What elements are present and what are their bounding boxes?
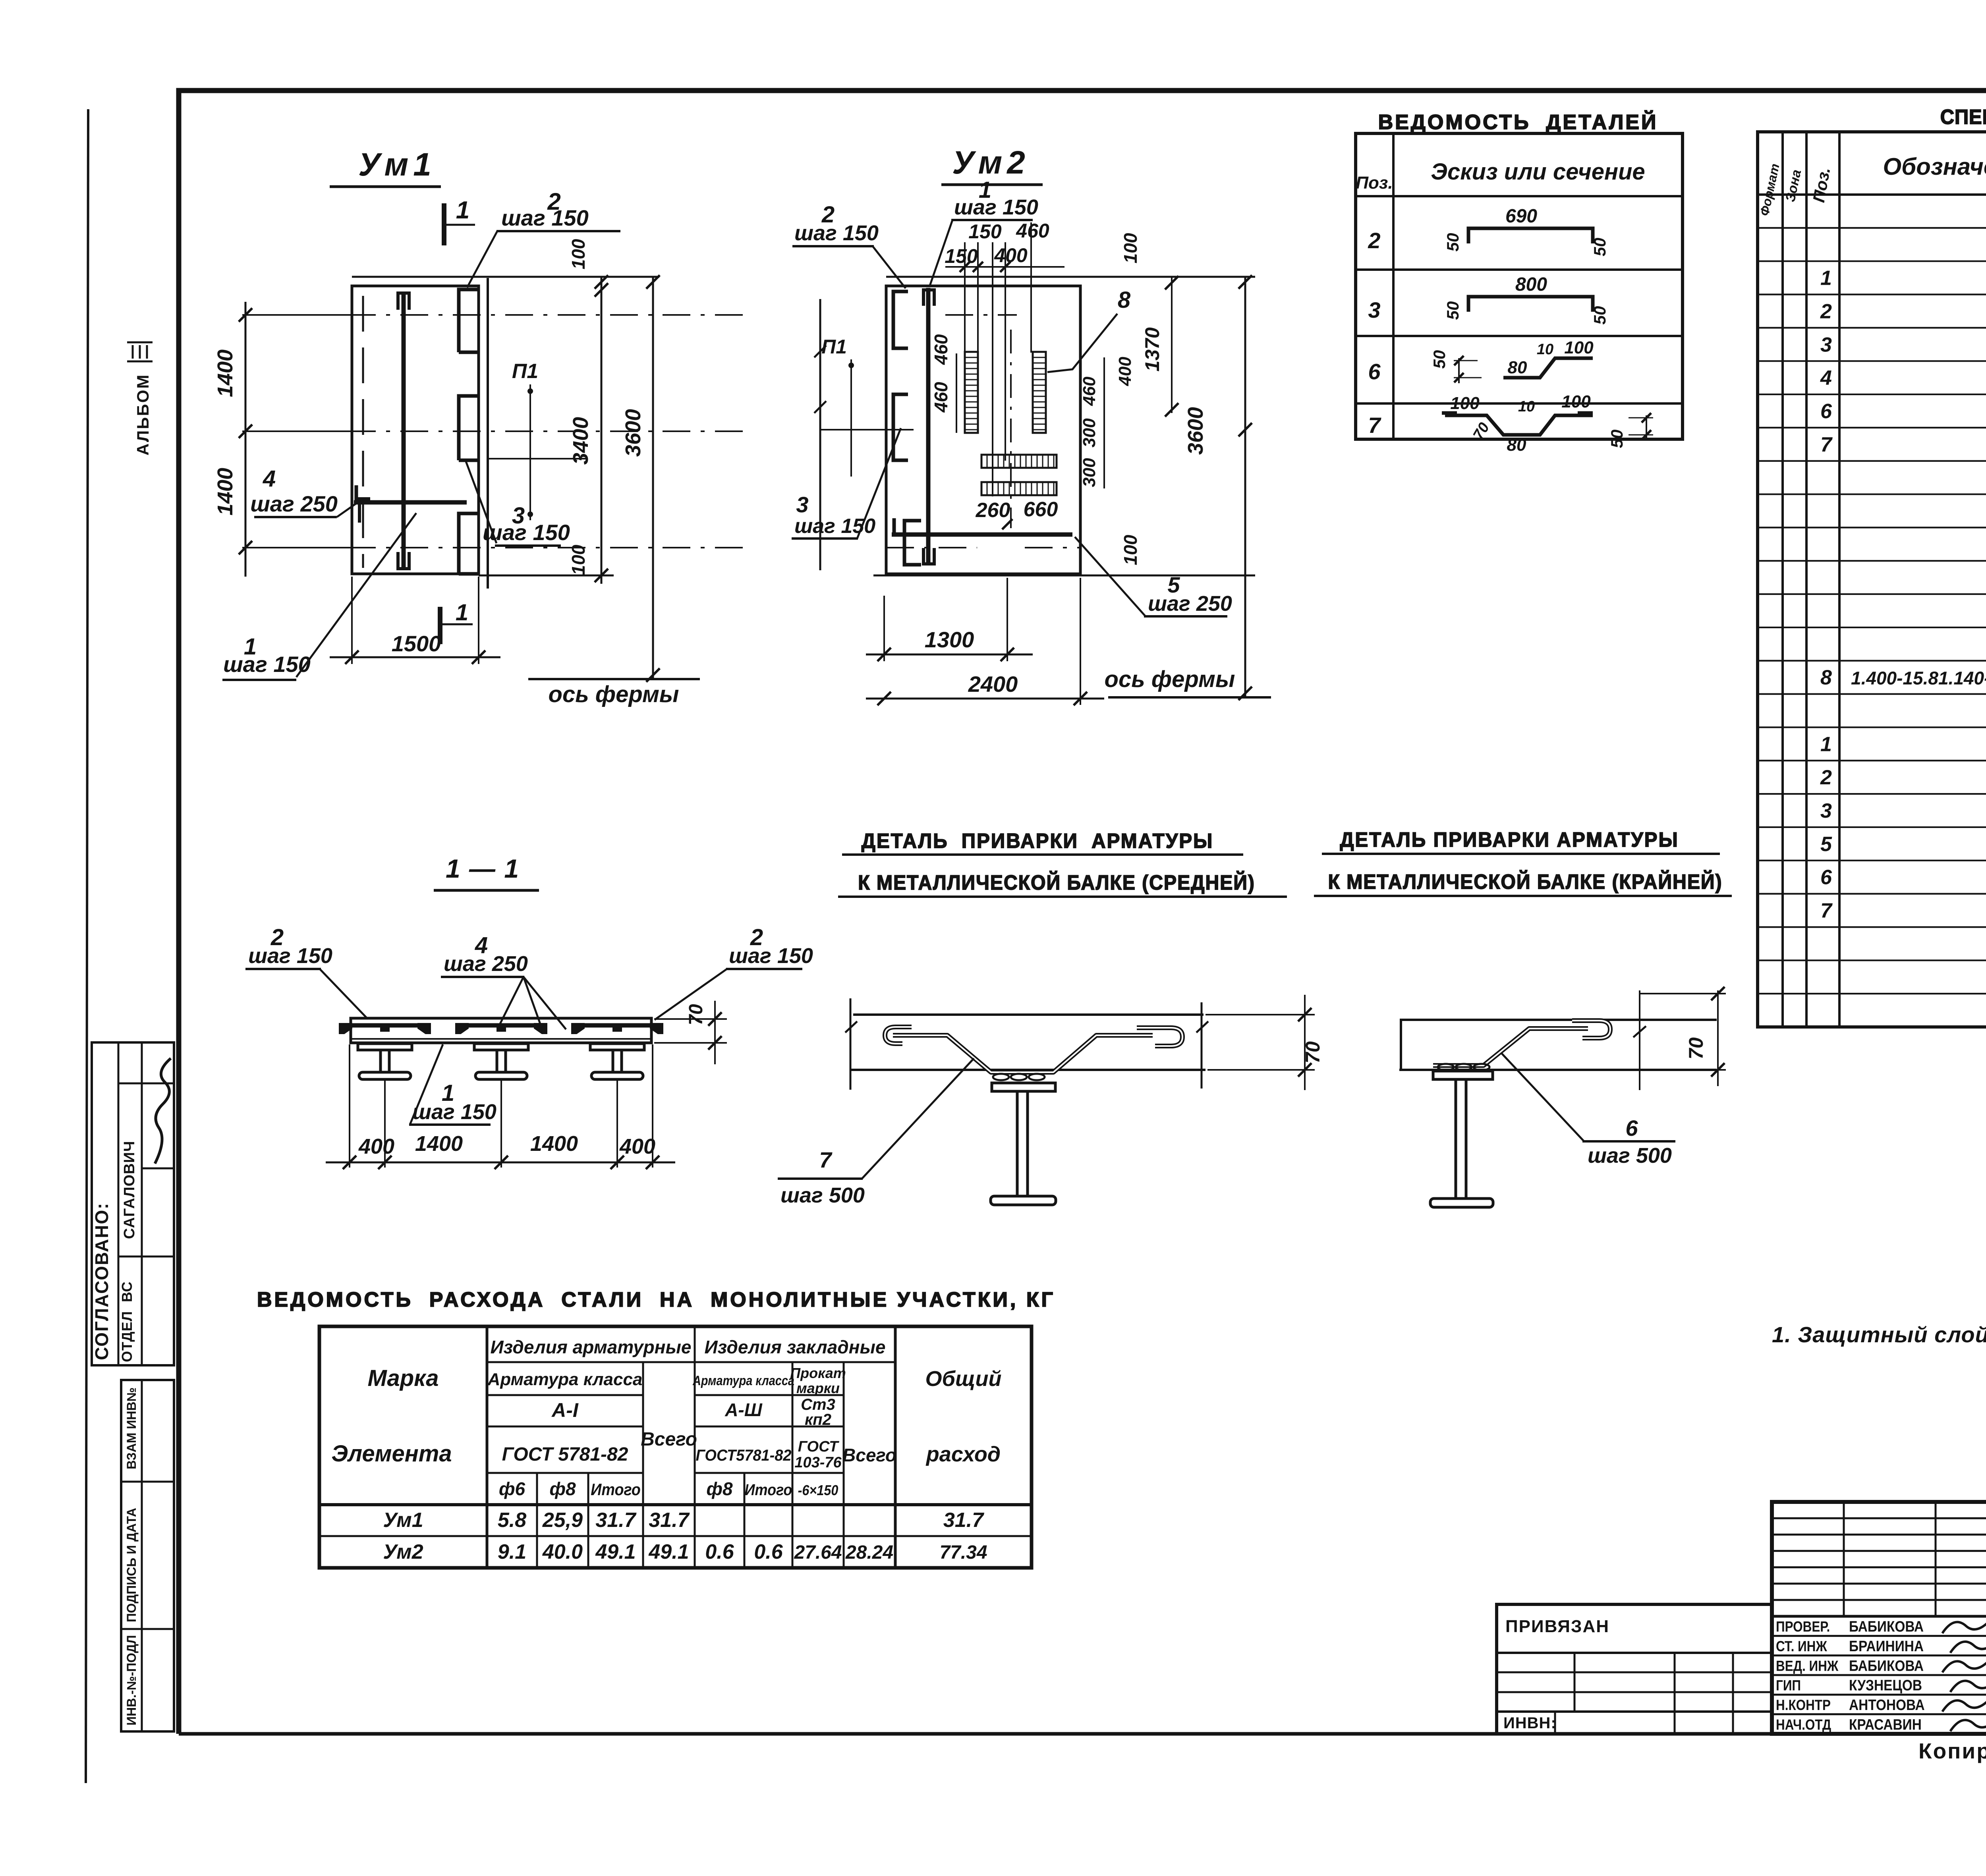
svg-text:1: 1 — [1820, 267, 1832, 290]
svg-text:Изделия закладные: Изделия закладные — [705, 1337, 886, 1357]
rebar item4 vertical bar — [402, 291, 406, 570]
svg-text:Копировал: Коршунова: Копировал: Коршунова — [1918, 1739, 1986, 1763]
svg-text:БАБИКОВА: БАБИКОВА — [1849, 1657, 1924, 1674]
dim 1500 bottom — [351, 577, 353, 664]
svg-text:50: 50 — [1443, 301, 1462, 320]
svg-text:КРАСАВИН: КРАСАВИН — [1849, 1716, 1922, 1733]
svg-text:25,9: 25,9 — [542, 1509, 583, 1532]
svg-text:Ум2: Ум2 — [952, 145, 1030, 181]
hatched anchor bar horizontal 1 — [981, 455, 1057, 468]
rebar channels in slab — [341, 1025, 429, 1033]
beam axis dash lines — [243, 314, 751, 316]
svg-text:100: 100 — [568, 239, 589, 269]
svg-text:100: 100 — [1564, 338, 1594, 357]
svg-text:5.8: 5.8 — [498, 1509, 526, 1532]
svg-text:К МЕТАЛЛИЧЕСКОЙ БАЛКЕ (СРЕДНЕЙ: К МЕТАЛЛИЧЕСКОЙ БАЛКЕ (СРЕДНЕЙ) — [858, 870, 1255, 894]
bottom extension Um2 — [873, 575, 1255, 577]
svg-text:31.7: 31.7 — [943, 1509, 984, 1532]
svg-text:шаг 150: шаг 150 — [248, 944, 332, 968]
rebar vertical bar Um2 — [926, 288, 931, 565]
svg-text:660: 660 — [1024, 498, 1058, 521]
title block upper-left grid — [1772, 1517, 1986, 1519]
svg-text:ГОСТ: ГОСТ — [798, 1438, 839, 1455]
svg-text:3: 3 — [1820, 333, 1832, 356]
svg-text:1500: 1500 — [392, 631, 441, 656]
svg-text:5: 5 — [1820, 833, 1832, 856]
svg-text:П1: П1 — [512, 360, 538, 383]
svg-text:50: 50 — [1430, 350, 1449, 369]
svg-text:690: 690 — [1505, 206, 1537, 227]
rebar bottom bar Um2 — [892, 533, 1072, 537]
svg-text:КУЗНЕЦОВ: КУЗНЕЦОВ — [1849, 1677, 1922, 1694]
svg-text:НАЧ.ОТД: НАЧ.ОТД — [1776, 1717, 1831, 1733]
svg-text:80: 80 — [1507, 435, 1526, 455]
svg-text:7: 7 — [1820, 433, 1833, 456]
row6 sketch Z-bar — [1503, 358, 1593, 378]
svg-text:2: 2 — [1820, 766, 1832, 789]
hatched anchor bar horizontal 2 — [981, 482, 1057, 495]
leader to slab corner — [467, 231, 497, 288]
axis line truss Um2 — [1108, 696, 1271, 699]
extension verticals above Um2 — [964, 242, 966, 353]
svg-text:Поз.: Поз. — [1356, 173, 1393, 193]
svg-text:1. Защитный слой бетона моноли: 1. Защитный слой бетона монолитного учас… — [1772, 1322, 1986, 1347]
svg-text:1: 1 — [1820, 733, 1832, 756]
svg-text:100: 100 — [1120, 535, 1141, 565]
steel table grid — [319, 1326, 1032, 1568]
svg-text:103-76: 103-76 — [794, 1454, 842, 1471]
svg-text:1400: 1400 — [530, 1132, 578, 1156]
svg-text:шаг 150: шаг 150 — [794, 515, 875, 538]
svg-text:Поз.: Поз. — [1809, 166, 1834, 204]
svg-text:150: 150 — [945, 245, 978, 267]
svg-text:100: 100 — [1561, 392, 1591, 411]
svg-text:Элемента: Элемента — [331, 1441, 452, 1467]
svg-text:1400: 1400 — [415, 1132, 463, 1156]
I-beam krayney — [1433, 1071, 1493, 1079]
svg-text:БРАИНИНА: БРАИНИНА — [1849, 1638, 1924, 1654]
svg-text:0.6: 0.6 — [705, 1540, 734, 1563]
svg-text:50: 50 — [1590, 238, 1609, 257]
svg-text:31.7: 31.7 — [595, 1509, 636, 1532]
svg-text:6: 6 — [1368, 359, 1381, 384]
svg-text:460: 460 — [1016, 220, 1049, 242]
table Vedomost detaley grid — [1356, 133, 1683, 439]
row2 sketch bracket 690 — [1468, 228, 1593, 243]
svg-text:шаг 150: шаг 150 — [954, 195, 1038, 219]
svg-text:шаг 500: шаг 500 — [780, 1183, 865, 1207]
svg-text:А-I: А-I — [551, 1399, 579, 1421]
svg-text:6: 6 — [1820, 400, 1832, 423]
svg-text:АНТОНОВА: АНТОНОВА — [1849, 1697, 1925, 1713]
dim 3600 Um2 — [1244, 277, 1246, 697]
svg-text:Арматура класса: Арматура класса — [692, 1373, 794, 1388]
svg-text:7: 7 — [1368, 413, 1381, 438]
svg-text:ВЕДОМОСТЬ ДЕТАЛЕЙ: ВЕДОМОСТЬ ДЕТАЛЕЙ — [1378, 110, 1658, 134]
svg-text:САГАЛОВИЧ: САГАЛОВИЧ — [121, 1141, 138, 1239]
svg-text:ОТДЕЛ ВС: ОТДЕЛ ВС — [119, 1281, 135, 1362]
svg-text:9.1: 9.1 — [498, 1540, 526, 1563]
svg-text:7: 7 — [1820, 899, 1833, 923]
svg-text:100: 100 — [1120, 233, 1141, 263]
steel table data row verticals — [536, 1505, 538, 1568]
dim 3400 line — [601, 277, 603, 584]
svg-text:шаг 500: шаг 500 — [1588, 1144, 1672, 1168]
svg-text:Прокат: Прокат — [790, 1365, 846, 1381]
svg-text:2: 2 — [1820, 300, 1832, 323]
svg-text:10: 10 — [1518, 398, 1535, 415]
svg-text:Итого: Итого — [591, 1480, 641, 1499]
svg-text:Изделия арматурные: Изделия арматурные — [491, 1337, 692, 1357]
svg-text:шаг 150: шаг 150 — [729, 944, 813, 968]
svg-text:ПОДПИСЬ И ДАТА: ПОДПИСЬ И ДАТА — [124, 1508, 139, 1622]
svg-text:3: 3 — [1820, 799, 1832, 822]
svg-text:шаг 150: шаг 150 — [794, 221, 879, 245]
inventory stamp box — [121, 1380, 174, 1731]
svg-text:Всего: Всего — [842, 1445, 896, 1465]
svg-text:50: 50 — [1607, 430, 1626, 448]
svg-text:шаг 150: шаг 150 — [223, 652, 311, 677]
row3 sketch bracket 800 — [1468, 297, 1593, 312]
svg-text:БАБИКОВА: БАБИКОВА — [1849, 1618, 1924, 1635]
svg-text:3600: 3600 — [1184, 407, 1207, 455]
approval stamp box — [92, 1042, 174, 1365]
svg-text:8: 8 — [1118, 287, 1131, 313]
svg-text:1 — 1: 1 — 1 — [446, 854, 520, 883]
svg-text:460: 460 — [1080, 376, 1099, 406]
dim 460 460 left chain — [956, 353, 957, 433]
svg-text:49.1: 49.1 — [595, 1540, 636, 1563]
svg-text:ДЕТАЛЬ ПРИВАРКИ АРМАТУРЫ: ДЕТАЛЬ ПРИВАРКИ АРМАТУРЫ — [1340, 828, 1679, 851]
svg-text:ф6: ф6 — [499, 1478, 525, 1499]
svg-text:-6×150: -6×150 — [798, 1482, 838, 1498]
svg-text:300: 300 — [1080, 458, 1099, 487]
weld ovals sredney — [993, 1074, 1009, 1080]
svg-text:100: 100 — [1450, 394, 1480, 413]
svg-text:4: 4 — [263, 466, 276, 492]
svg-text:шаг 250: шаг 250 — [250, 491, 338, 516]
svg-text:31.7: 31.7 — [649, 1509, 690, 1532]
svg-text:К МЕТАЛЛИЧЕСКОЙ БАЛКЕ (КРАЙНЕЙ: К МЕТАЛЛИЧЕСКОЙ БАЛКЕ (КРАЙНЕЙ) — [1328, 870, 1722, 893]
bracket top-left Um2 — [893, 291, 908, 348]
svg-text:марки: марки — [796, 1380, 840, 1396]
svg-text:1: 1 — [456, 197, 469, 224]
svg-text:40.0: 40.0 — [542, 1540, 583, 1563]
slab outline Um2 — [886, 286, 1080, 574]
svg-text:ГИП: ГИП — [1776, 1677, 1801, 1694]
svg-text:П1: П1 — [821, 336, 847, 358]
frame bottom line — [179, 1732, 1986, 1736]
drawing frame border — [179, 91, 1986, 1734]
slab edges krayney — [1401, 1020, 1717, 1070]
svg-text:800: 800 — [1515, 274, 1547, 295]
svg-text:1: 1 — [456, 600, 468, 625]
svg-text:Общий: Общий — [925, 1367, 1002, 1391]
svg-text:50: 50 — [1443, 233, 1462, 252]
sheet scan edge line left — [86, 109, 88, 1783]
svg-text:10: 10 — [1537, 341, 1553, 358]
svg-text:Арматура класса: Арматура класса — [487, 1370, 643, 1389]
svg-text:460: 460 — [931, 334, 951, 365]
svg-text:300: 300 — [1080, 418, 1099, 448]
svg-text:3400: 3400 — [569, 417, 593, 465]
svg-text:49.1: 49.1 — [648, 1540, 689, 1563]
dim 1300 — [883, 596, 885, 661]
svg-text:3: 3 — [796, 492, 808, 517]
svg-text:100: 100 — [568, 544, 589, 575]
bent rebar item6 — [1433, 1021, 1610, 1065]
svg-text:кп2: кп2 — [805, 1411, 831, 1428]
svg-text:6: 6 — [1820, 866, 1832, 889]
svg-text:28.24: 28.24 — [845, 1542, 893, 1563]
svg-text:ось фермы: ось фермы — [1105, 666, 1235, 692]
bottom dim chain 400 1400 1400 400 — [349, 1044, 350, 1168]
svg-text:ВЕДОМОСТЬ РАСХОДА СТАЛИ НА: ВЕДОМОСТЬ РАСХОДА СТАЛИ НА МОНОЛИТНЫЕ УЧ… — [257, 1288, 1055, 1311]
svg-text:Ум1: Ум1 — [358, 147, 436, 183]
svg-text:8: 8 — [1820, 666, 1832, 689]
dim 70 sredney — [1206, 1014, 1315, 1015]
svg-text:2400: 2400 — [968, 672, 1018, 697]
spec table grid — [1758, 132, 1986, 1027]
svg-text:Ум2: Ум2 — [383, 1540, 423, 1563]
svg-text:0.6: 0.6 — [754, 1540, 783, 1563]
svg-text:1400: 1400 — [213, 468, 237, 515]
svg-text:АЛЬБОМ: АЛЬБОМ — [133, 374, 152, 455]
svg-text:СПЕЦИФИКАЦИЯ МОНОЛИТНЫХ УЧАС: СПЕЦИФИКАЦИЯ МОНОЛИТНЫХ УЧАСТКОВ УМ1, УМ… — [1940, 105, 1986, 129]
svg-text:Формат: Формат — [1757, 162, 1782, 217]
channel bracket top right — [459, 290, 479, 352]
svg-text:460: 460 — [931, 382, 951, 413]
svg-text:СОГЛАСОВАНО:: СОГЛАСОВАНО: — [91, 1202, 112, 1360]
svg-text:80: 80 — [1508, 358, 1527, 377]
small bracket bottom left — [359, 499, 370, 523]
svg-text:Итого: Итого — [745, 1481, 792, 1499]
svg-text:ось фермы: ось фермы — [549, 681, 679, 707]
svg-text:70: 70 — [1302, 1041, 1324, 1063]
svg-text:расход: расход — [925, 1442, 1001, 1466]
svg-text:ВЕД. ИНЖ: ВЕД. ИНЖ — [1776, 1658, 1839, 1674]
svg-text:Эскиз или сечение: Эскиз или сечение — [1431, 159, 1645, 185]
slab section bar — [351, 1018, 651, 1043]
signature squiggle — [155, 1058, 171, 1164]
dim 70 krayney — [1639, 990, 1640, 1090]
privyazan box — [1497, 1604, 1772, 1734]
svg-text:ВЗАМ ИНВ№: ВЗАМ ИНВ№ — [124, 1388, 139, 1469]
slab bottom thin line — [351, 1038, 651, 1040]
svg-text:1.400-15.81.140-08: 1.400-15.81.140-08 — [1851, 668, 1986, 689]
bent rebar item7 — [885, 1027, 1182, 1072]
bracket mid-left Um2 — [893, 394, 908, 460]
svg-text:Всего: Всего — [641, 1429, 697, 1450]
svg-text:ПРИВЯЗАН: ПРИВЯЗАН — [1505, 1617, 1609, 1636]
svg-text:ГОСТ 5781-82: ГОСТ 5781-82 — [502, 1444, 628, 1465]
bracket bottom-left Um2 — [904, 521, 921, 565]
svg-text:Марка: Марка — [367, 1365, 439, 1391]
hatched anchor bar vertical 1 — [965, 352, 978, 433]
svg-text:6: 6 — [1625, 1116, 1638, 1141]
dim 3600 line Um1 — [652, 277, 654, 679]
svg-text:70: 70 — [1685, 1037, 1707, 1060]
svg-text:27.64: 27.64 — [794, 1542, 842, 1563]
I-beam sredney — [992, 1083, 1055, 1091]
svg-text:шаг 150: шаг 150 — [501, 205, 589, 230]
adjacent slab edge with breaks — [819, 299, 821, 570]
dim chain mid 400 460 300 300 — [1103, 357, 1105, 488]
top extension Um2 — [886, 276, 1255, 278]
svg-text:ИНВ.-№-ПОДЛ: ИНВ.-№-ПОДЛ — [124, 1635, 139, 1725]
svg-text:ДЕТАЛЬ ПРИВАРКИ АРМАТУРЫ: ДЕТАЛЬ ПРИВАРКИ АРМАТУРЫ — [862, 829, 1213, 852]
I-beams under slab — [358, 1044, 412, 1050]
svg-text:шаг 150: шаг 150 — [412, 1100, 496, 1124]
svg-text:2: 2 — [1368, 228, 1380, 253]
svg-text:3: 3 — [1368, 297, 1380, 322]
svg-text:ИНВН:: ИНВН: — [1503, 1714, 1557, 1732]
svg-text:70: 70 — [686, 1004, 707, 1025]
dim 70 right of section — [654, 1018, 727, 1020]
centre dash line Um2 — [1010, 330, 1012, 528]
weld ovals krayney — [1438, 1064, 1454, 1070]
svg-text:260: 260 — [976, 499, 1010, 522]
svg-text:400: 400 — [358, 1135, 394, 1158]
svg-text:1370: 1370 — [1141, 327, 1163, 371]
svg-text:Ум1: Ум1 — [383, 1509, 423, 1532]
svg-text:шаг 250: шаг 250 — [444, 952, 528, 976]
svg-text:СТ. ИНЖ: СТ. ИНЖ — [1776, 1639, 1828, 1655]
svg-text:400: 400 — [619, 1135, 655, 1158]
slab right edge band — [487, 278, 489, 589]
svg-text:150: 150 — [968, 220, 1002, 243]
svg-text:77.34: 77.34 — [939, 1542, 987, 1563]
right break line — [1201, 1002, 1203, 1089]
rebar item1 horizontal bar — [354, 500, 467, 505]
svg-text:1400: 1400 — [213, 349, 237, 397]
svg-text:1300: 1300 — [925, 627, 974, 652]
left break line — [850, 998, 852, 1090]
dim 2400 — [1080, 578, 1081, 705]
svg-text:ф8: ф8 — [549, 1478, 576, 1499]
section marker 1 bottom — [438, 607, 442, 644]
slab outline Um1 — [352, 286, 479, 574]
svg-text:7: 7 — [819, 1147, 833, 1172]
svg-text:ГОСТ5781-82: ГОСТ5781-82 — [696, 1447, 792, 1464]
svg-text:50: 50 — [1590, 306, 1609, 325]
row7 sketch hat-bar — [1445, 415, 1593, 435]
channel bracket bottom right — [459, 513, 479, 574]
title block outline — [1772, 1502, 1986, 1734]
hatched anchor bar vertical 2 — [1033, 352, 1046, 433]
svg-text:ПРОВЕР.: ПРОВЕР. — [1776, 1619, 1830, 1635]
svg-text:Н.КОНТР: Н.КОНТР — [1776, 1697, 1831, 1714]
dim 1370 line — [1171, 277, 1173, 413]
svg-text:3600: 3600 — [621, 409, 645, 457]
svg-text:А-Ш: А-Ш — [724, 1399, 763, 1420]
axis line truss Um1 — [528, 678, 700, 680]
dim extension top Um1 — [352, 276, 659, 278]
dash line in Um2 — [945, 314, 1017, 316]
svg-text:Обозначение: Обозначение — [1883, 153, 1986, 180]
svg-text:ф8: ф8 — [706, 1478, 733, 1499]
channel bracket mid right — [459, 396, 479, 460]
slab edges sredney — [853, 1013, 1204, 1016]
svg-text:4: 4 — [1820, 367, 1832, 390]
svg-text:Зона: Зона — [1783, 168, 1804, 203]
dashed inner line left — [362, 296, 364, 568]
svg-text:шаг 250: шаг 250 — [1148, 592, 1232, 616]
section marker 1 top — [442, 203, 446, 245]
dim 1400 double left — [245, 302, 247, 577]
svg-text:400: 400 — [1115, 357, 1135, 386]
